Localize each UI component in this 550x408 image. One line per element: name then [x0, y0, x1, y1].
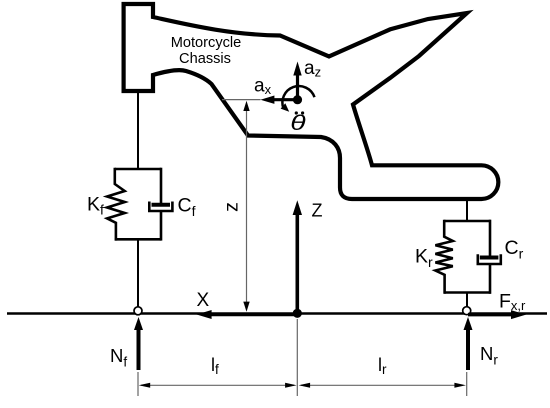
svg-text:Motorcycle: Motorcycle — [171, 35, 242, 51]
a_z arrow — [296, 73, 299, 100]
damper piston C_f — [152, 203, 171, 207]
wire rear suspension lower rod — [466, 292, 468, 308]
dimension extension line center — [296, 319, 298, 396]
l_f dimension line — [141, 384, 294, 386]
origin node (CG projection, filled) — [293, 309, 302, 318]
label theta-dd — [290, 111, 306, 135]
CG dot — [293, 95, 302, 104]
svg-text:Z: Z — [312, 201, 323, 221]
dimension extension line rear — [466, 372, 468, 396]
wire rear suspension upper rod — [466, 198, 468, 221]
theta-dd rotation arc — [282, 86, 314, 108]
z dimension line — [246, 104, 248, 309]
l_r dimension line — [301, 384, 463, 386]
N_r force arrow — [466, 327, 470, 370]
dimension extension line front — [137, 372, 139, 396]
wire front suspension lower rod — [137, 239, 139, 308]
front suspension box K_f C_f — [107, 168, 172, 241]
N_f force arrow — [137, 327, 141, 370]
spring K_r — [435, 220, 452, 294]
z dimension extension line — [222, 99, 261, 101]
svg-text:θ: θ — [290, 111, 306, 135]
wire front fork rod — [137, 91, 139, 169]
damper C_f branch — [160, 168, 163, 204]
rear suspension box K_r C_r — [435, 220, 500, 294]
damper piston C_r — [480, 256, 499, 260]
bottom bar — [115, 238, 161, 241]
motorcycle chassis body outline — [124, 4, 499, 199]
bottom bar — [444, 291, 491, 294]
damper cup C_f — [149, 202, 172, 212]
X axis arrow — [208, 313, 297, 317]
svg-text:X: X — [197, 290, 210, 311]
a_x arrow — [271, 98, 298, 101]
damper C_r branch — [489, 220, 492, 256]
rear contact node (circle) — [463, 307, 471, 315]
F_x,r force arrow — [468, 313, 514, 317]
damper cup C_r — [478, 254, 501, 264]
spring K_f — [107, 168, 125, 241]
ground line — [7, 312, 547, 314]
svg-text:Chassis: Chassis — [179, 51, 231, 67]
top bar — [444, 220, 491, 223]
svg-text:z: z — [221, 202, 243, 212]
front contact node (circle) — [134, 307, 142, 315]
top bar — [115, 168, 161, 171]
Z axis arrow — [295, 213, 299, 314]
